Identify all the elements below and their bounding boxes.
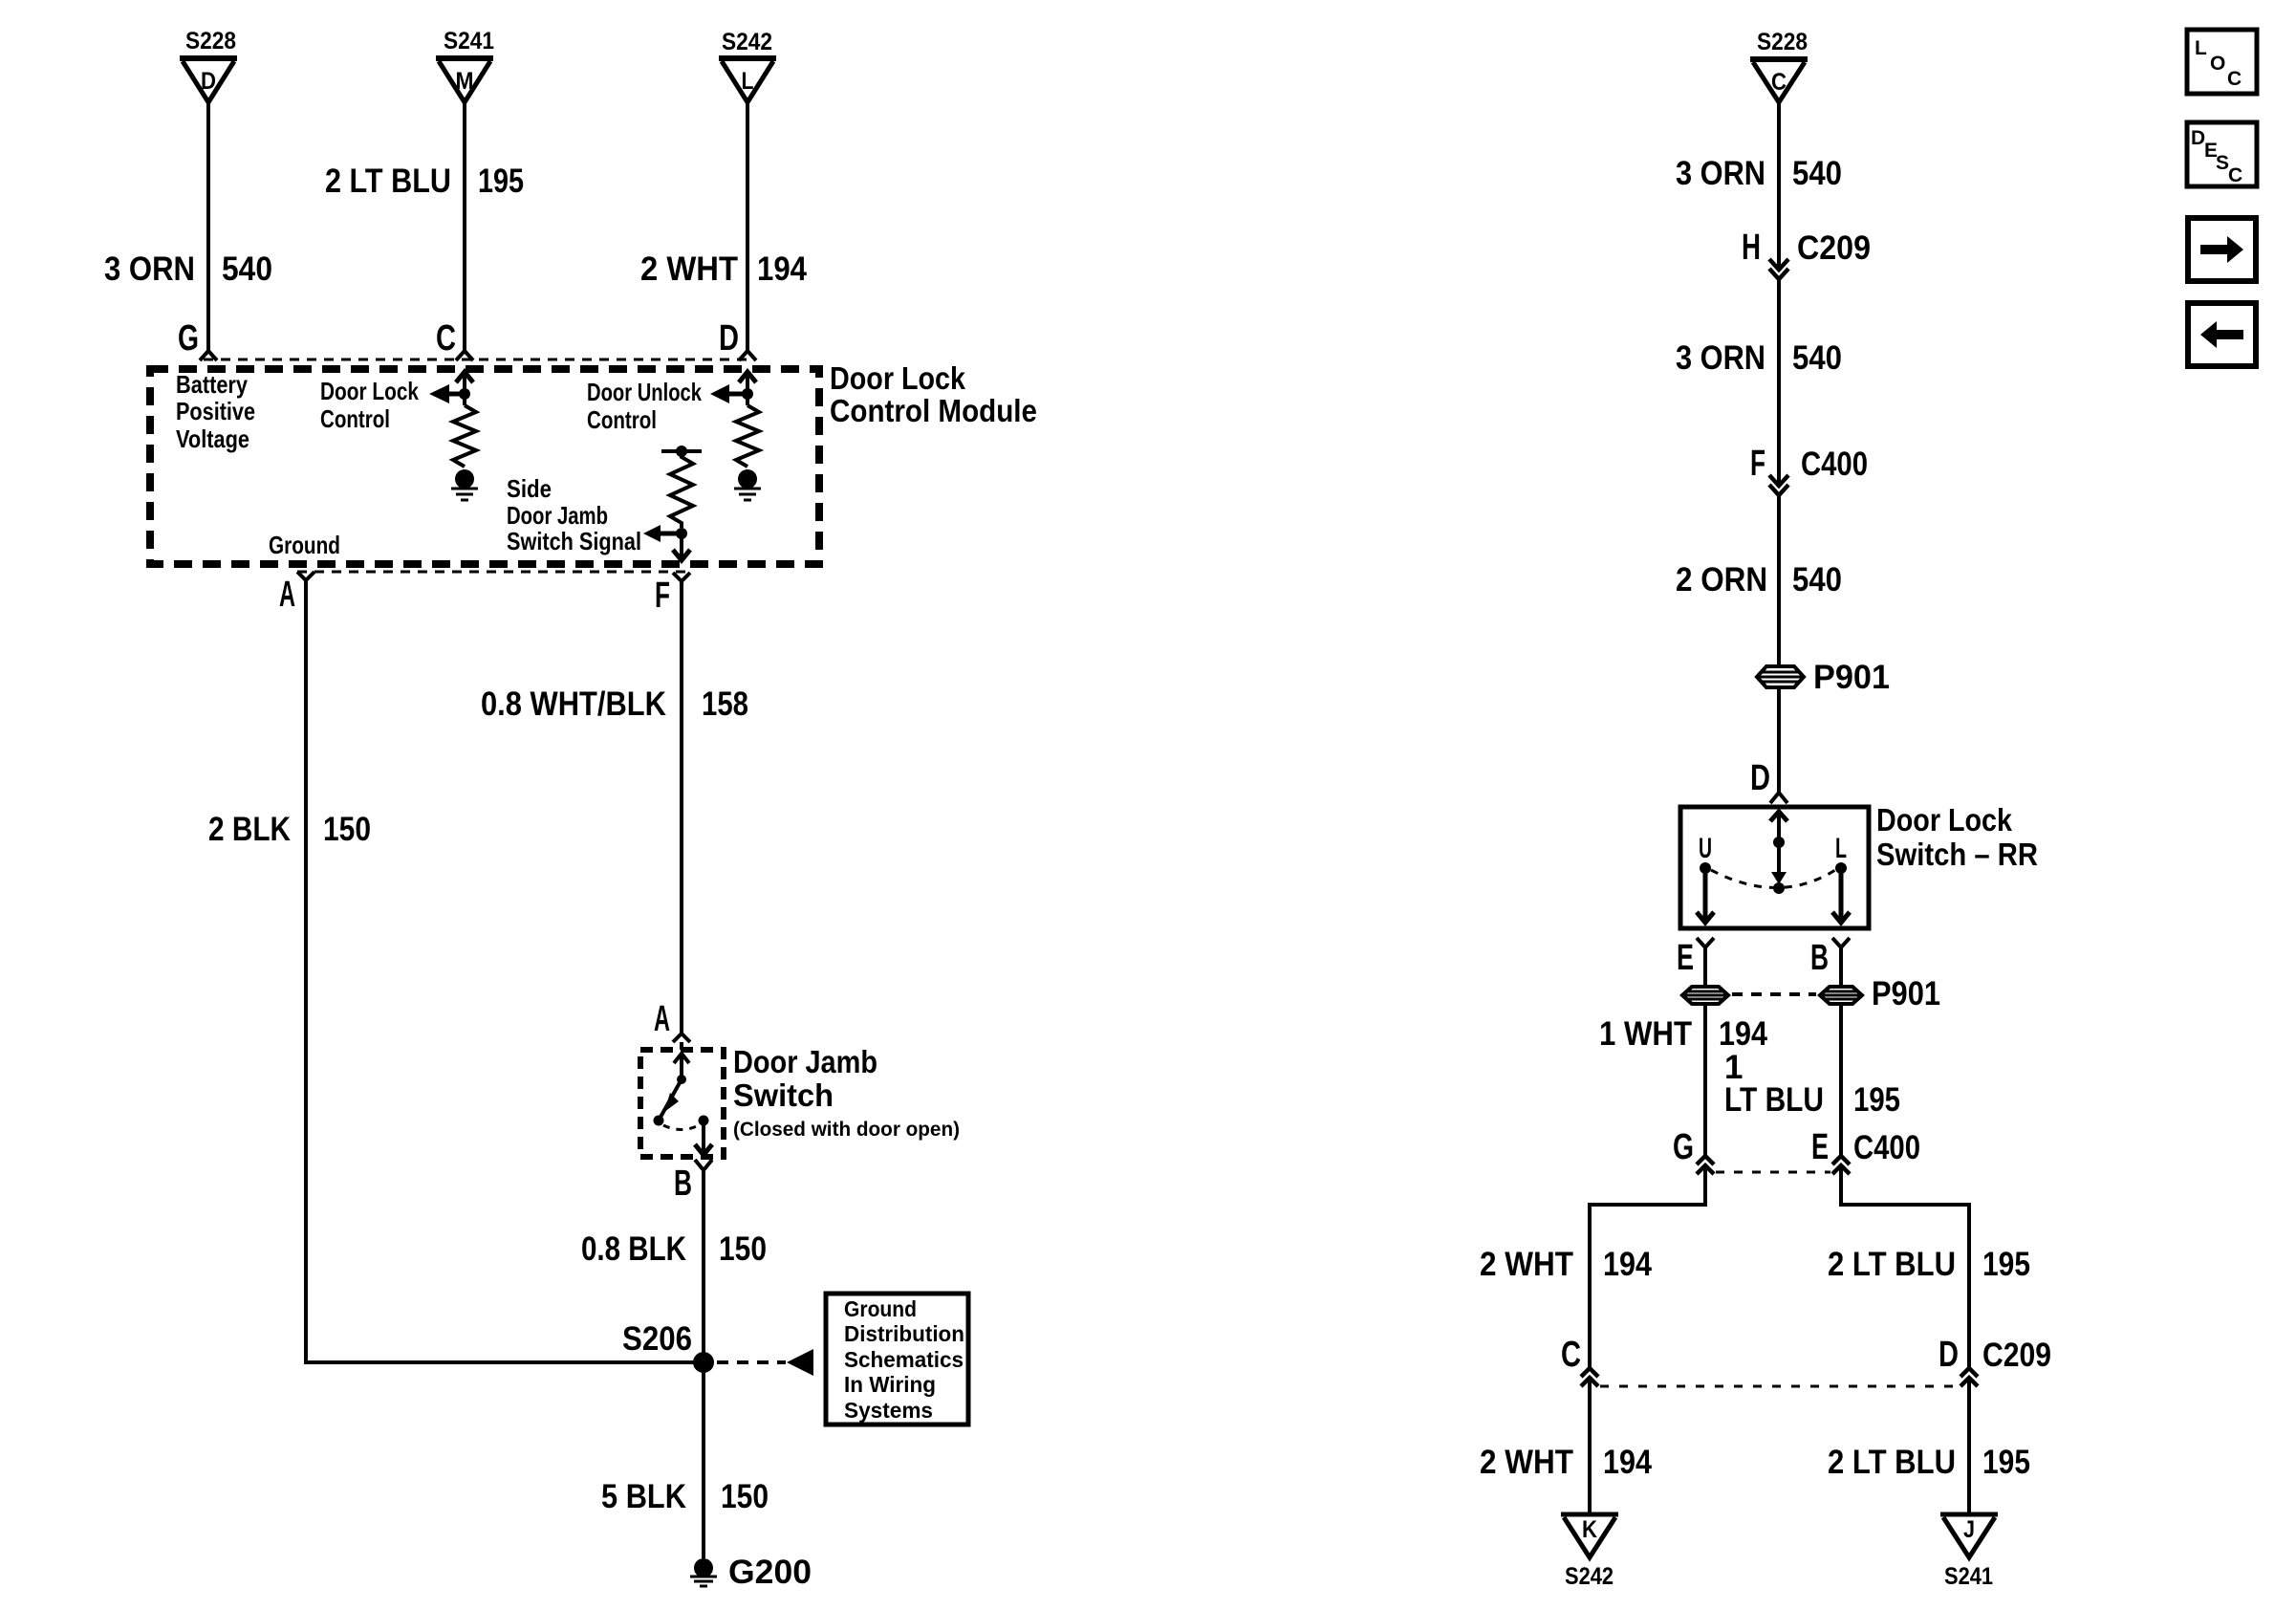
label 3 ORN 540 (lower) — [1676, 339, 1842, 377]
svg-text:C400: C400 — [1853, 1129, 1920, 1166]
Door Lock Switch - RR box — [1680, 807, 1869, 928]
wire P901 to switch pin D — [1777, 687, 1781, 792]
svg-text:Distribution: Distribution — [844, 1321, 964, 1346]
splice S241 (cavity M) — [436, 28, 494, 102]
connector C400 pin F (inline) — [1750, 444, 1868, 495]
svg-text:2 LT BLU: 2 LT BLU — [1828, 1246, 1956, 1283]
connector C400 pin E (inline) — [1811, 1127, 1920, 1174]
svg-text:150: 150 — [323, 811, 371, 848]
connector C209 pin H (inline) — [1742, 228, 1871, 279]
splice S206 — [622, 1320, 714, 1373]
wire pin F to jamb switch — [680, 581, 683, 1033]
svg-text:Switch – RR: Switch – RR — [1876, 837, 2038, 872]
svg-text:S242: S242 — [722, 29, 772, 55]
svg-text:3 ORN: 3 ORN — [104, 250, 195, 288]
svg-text:A: A — [654, 999, 670, 1039]
wire S241-M to pin C — [463, 103, 466, 352]
svg-text:Door Unlock: Door Unlock — [587, 378, 702, 406]
svg-text:195: 195 — [1982, 1444, 2030, 1481]
svg-text:C: C — [2227, 68, 2242, 90]
svg-text:195: 195 — [1853, 1081, 1900, 1119]
node at unlock drive — [742, 388, 753, 400]
label 0.8 BLK 150 — [581, 1230, 767, 1268]
svg-text:Door Lock: Door Lock — [1876, 802, 2013, 838]
label 2 LT BLU 195 — [325, 163, 524, 200]
resistor (door unlock coil) — [736, 405, 759, 467]
jamb switch signal arrow — [643, 525, 682, 542]
pass-through grommet P901 (inline) — [1757, 659, 1890, 696]
svg-text:2 BLK: 2 BLK — [208, 811, 291, 848]
dashed tie C209 — [1600, 1385, 1959, 1388]
svg-text:In Wiring: In Wiring — [844, 1372, 936, 1397]
door unlock control output arrow — [710, 384, 747, 403]
svg-text:C400: C400 — [1801, 446, 1868, 483]
svg-text:150: 150 — [721, 1478, 769, 1515]
wire C400-G to left drop — [1590, 1164, 1705, 1367]
switch pin E fork — [1677, 938, 1714, 978]
svg-text:540: 540 — [222, 250, 272, 288]
svg-text:S206: S206 — [622, 1320, 692, 1358]
pin C terminal fork — [436, 318, 473, 360]
svg-text:L: L — [1835, 833, 1847, 864]
svg-text:S242: S242 — [1565, 1563, 1614, 1590]
label 2 ORN 540 — [1676, 561, 1842, 598]
switch wiper node — [1773, 882, 1785, 894]
svg-text:Door Lock: Door Lock — [830, 360, 966, 396]
svg-text:D: D — [719, 318, 739, 359]
wire S228-D to pin G — [206, 103, 210, 352]
svg-text:D: D — [1939, 1335, 1959, 1375]
svg-text:J: J — [1963, 1516, 1975, 1543]
contact U with arrow down — [1697, 862, 1714, 923]
svg-text:194: 194 — [1603, 1246, 1652, 1283]
dashed tie between P901 grommets — [1732, 992, 1816, 996]
label 2 LT BLU 195 (lower) — [1828, 1444, 2030, 1481]
pin F terminal fork — [655, 573, 690, 616]
svg-text:P901: P901 — [1872, 975, 1940, 1012]
svg-text:S241: S241 — [1944, 1563, 1993, 1590]
svg-text:2 ORN: 2 ORN — [1676, 561, 1767, 598]
svg-text:B: B — [674, 1164, 692, 1204]
jamb switch contact right — [699, 1116, 709, 1126]
wire pin B to P901 — [1839, 947, 1843, 987]
svg-text:5 BLK: 5 BLK — [601, 1478, 686, 1515]
svg-text:S228: S228 — [1757, 29, 1808, 55]
svg-text:195: 195 — [1982, 1246, 2030, 1283]
label 3 ORN 540 (upper) — [1676, 155, 1842, 192]
svg-text:0.8 BLK: 0.8 BLK — [581, 1230, 686, 1268]
wire C400-E to right drop — [1841, 1164, 1969, 1367]
wire C400 to P901 — [1777, 494, 1781, 666]
svg-text:S: S — [2216, 152, 2229, 174]
connector C400 pin G (inline) — [1673, 1127, 1714, 1174]
switch common node — [1773, 837, 1785, 848]
switch dashed throw arc — [1711, 870, 1835, 888]
svg-text:3 ORN: 3 ORN — [1676, 339, 1765, 377]
svg-text:D: D — [2191, 127, 2205, 149]
resistor (door lock coil) — [453, 405, 476, 467]
jamb switch pin A fork — [654, 999, 690, 1050]
svg-text:3 ORN: 3 ORN — [1676, 155, 1765, 192]
internal ground (door unlock coil) — [734, 469, 761, 500]
resistor (jamb pull-up) — [670, 453, 693, 528]
pin A terminal fork — [279, 572, 314, 615]
label Battery Positive Voltage — [176, 370, 255, 453]
label 3 ORN 540 — [104, 250, 272, 288]
door lock control output arrow — [429, 384, 465, 403]
svg-text:Control: Control — [587, 405, 657, 434]
pin D terminal fork — [719, 318, 756, 360]
button previous (left arrow) — [2188, 303, 2256, 366]
svg-text:0.8 WHT/BLK: 0.8 WHT/BLK — [481, 685, 666, 723]
svg-text:Control: Control — [320, 404, 390, 433]
grommet P901 (pin E) — [1682, 987, 1728, 1004]
svg-text:194: 194 — [757, 250, 807, 288]
svg-text:195: 195 — [478, 163, 524, 200]
wire pin B to S206 — [702, 1170, 705, 1362]
svg-text:Voltage: Voltage — [176, 424, 249, 453]
svg-text:Ground: Ground — [269, 531, 340, 559]
node at lock drive — [459, 388, 470, 400]
svg-text:(Closed with door open): (Closed with door open) — [733, 1119, 960, 1141]
svg-text:194: 194 — [1603, 1444, 1652, 1481]
Door Lock Switch - RR name — [1876, 802, 2038, 872]
wire C209 to C400 — [1777, 278, 1781, 485]
svg-text:C: C — [1771, 69, 1787, 96]
Door Lock Control Module box (dashed) — [150, 369, 819, 564]
jamb switch pin B fork — [674, 1160, 712, 1204]
Door Lock Control Module name — [830, 360, 1037, 428]
svg-text:S228: S228 — [185, 28, 236, 54]
button next (right arrow) — [2188, 218, 2256, 281]
svg-text:C: C — [436, 318, 456, 359]
wire C209-C to S242 — [1588, 1378, 1592, 1512]
svg-text:2 WHT: 2 WHT — [1480, 1444, 1573, 1481]
svg-text:540: 540 — [1792, 155, 1842, 192]
internal ground (door lock coil) — [451, 469, 478, 500]
svg-text:Door Lock: Door Lock — [320, 377, 419, 405]
svg-text:C: C — [2228, 164, 2242, 186]
connector C209 pin D (inline) — [1939, 1335, 2051, 1386]
contact L with arrow down — [1832, 862, 1850, 923]
jamb switch dashed throw arc — [663, 1125, 699, 1130]
dashed tie C400 — [1716, 1171, 1830, 1174]
jamb switch contact left — [654, 1116, 664, 1126]
svg-text:Ground: Ground — [844, 1296, 917, 1321]
splice S241 (cavity J) — [1940, 1514, 1998, 1590]
svg-text:B: B — [1810, 938, 1829, 978]
svg-text:158: 158 — [702, 685, 748, 723]
svg-text:C209: C209 — [1982, 1337, 2051, 1374]
svg-text:Systems: Systems — [844, 1398, 933, 1423]
svg-text:LT BLU: LT BLU — [1724, 1081, 1824, 1119]
svg-text:G: G — [1673, 1127, 1694, 1167]
svg-text:C: C — [1561, 1335, 1581, 1375]
svg-text:H: H — [1742, 228, 1761, 268]
wire pin A ground run — [306, 580, 695, 1362]
svg-text:U: U — [1699, 833, 1712, 864]
svg-text:2 WHT: 2 WHT — [640, 250, 738, 288]
label 2 WHT 194 — [640, 250, 807, 288]
jamb switch common node — [677, 1075, 686, 1084]
label Door Unlock Control — [587, 378, 702, 434]
svg-text:540: 540 — [1792, 339, 1842, 377]
Door Jamb Switch name — [733, 1044, 960, 1141]
wire C209-D to S241 — [1967, 1378, 1971, 1512]
wire S228-C to C209 — [1777, 103, 1781, 269]
wire B to C400-E — [1839, 1004, 1843, 1157]
svg-text:E: E — [1677, 938, 1694, 978]
Ground Distribution Schematics reference box — [826, 1294, 968, 1425]
splice S242 (cavity L) — [719, 29, 776, 102]
ground G200 — [690, 1554, 812, 1591]
svg-text:C209: C209 — [1797, 229, 1871, 267]
svg-text:P901: P901 — [1813, 659, 1890, 696]
wire E to C400-G — [1703, 1004, 1707, 1157]
splice S242 (cavity K) — [1561, 1514, 1618, 1590]
svg-text:E: E — [1811, 1127, 1829, 1167]
svg-text:G: G — [178, 318, 199, 359]
module top connector line (thin dashed) — [204, 359, 752, 361]
svg-text:Battery: Battery — [176, 370, 248, 399]
jamb switch input arrow (up) — [674, 1054, 689, 1079]
jamb switch lever (with arrowhead) — [659, 1079, 682, 1120]
label 2 WHT 194 (upper) — [1480, 1246, 1652, 1283]
svg-text:2 WHT: 2 WHT — [1480, 1246, 1573, 1283]
svg-text:Control Module: Control Module — [830, 393, 1037, 428]
svg-text:194: 194 — [1719, 1015, 1767, 1053]
pin G terminal fork — [178, 318, 217, 360]
switch pin D fork — [1750, 758, 1787, 803]
connector C209 pin C (inline) — [1561, 1335, 1598, 1386]
svg-text:O: O — [2210, 53, 2225, 75]
svg-text:Positive: Positive — [176, 397, 255, 425]
svg-text:M: M — [456, 68, 474, 95]
svg-text:G200: G200 — [728, 1554, 812, 1591]
label 2 WHT 194 (lower) — [1480, 1444, 1652, 1481]
button DESC — [2187, 122, 2257, 186]
jamb switch output arrow (down to pin B) — [695, 1120, 712, 1155]
unlock drive input arrow (up) — [739, 372, 756, 405]
label Door Lock Control — [320, 377, 419, 433]
svg-text:2 LT BLU: 2 LT BLU — [325, 163, 451, 200]
splice S228 (left, cavity D) — [180, 28, 237, 102]
svg-text:Switch Signal: Switch Signal — [507, 527, 641, 555]
svg-text:Door Jamb: Door Jamb — [507, 501, 608, 530]
label 1 WHT 194 — [1599, 1015, 1767, 1053]
svg-text:540: 540 — [1792, 561, 1842, 598]
svg-text:150: 150 — [719, 1230, 767, 1268]
svg-text:A: A — [279, 575, 295, 615]
label 2 LT BLU 195 (upper) — [1828, 1246, 2030, 1283]
svg-text:D: D — [1750, 758, 1770, 798]
wire S206 to G200 — [702, 1362, 705, 1558]
switch pin B fork — [1810, 938, 1850, 978]
svg-text:Schematics: Schematics — [844, 1347, 964, 1372]
svg-text:F: F — [655, 576, 670, 616]
svg-text:D: D — [201, 68, 216, 95]
button LOC — [2187, 30, 2257, 94]
label 0.8 WHT/BLK 158 — [481, 685, 748, 723]
svg-text:Door Jamb: Door Jamb — [733, 1044, 877, 1079]
svg-text:1 WHT: 1 WHT — [1599, 1015, 1692, 1053]
jamb pull-up rail — [661, 446, 702, 457]
svg-text:L: L — [742, 68, 754, 95]
grommet P901 (pin B) — [1820, 987, 1862, 1004]
svg-text:K: K — [1582, 1516, 1597, 1543]
svg-text:F: F — [1750, 444, 1765, 484]
wire pin E to P901 — [1703, 947, 1707, 987]
label 5 BLK 150 — [601, 1478, 769, 1515]
module bottom connector line (thin dashed) — [297, 571, 690, 574]
splice S228 (right, cavity C) — [1750, 29, 1808, 102]
node jamb sense — [676, 528, 687, 539]
jamb sense output arrow (down to pin F) — [673, 533, 690, 560]
svg-text:Switch: Switch — [733, 1077, 834, 1113]
wire S242-L to pin D — [746, 103, 749, 352]
lock drive input arrow (up) — [456, 372, 473, 405]
svg-text:2 LT BLU: 2 LT BLU — [1828, 1444, 1956, 1481]
label 1 LT BLU 195 — [1724, 1049, 1900, 1119]
label 2 BLK 150 — [208, 811, 371, 848]
dashed reference to ground distribution — [717, 1349, 813, 1376]
svg-text:S241: S241 — [444, 28, 494, 54]
Door Jamb Switch box (dashed) — [640, 1050, 724, 1157]
svg-text:L: L — [2195, 37, 2207, 59]
svg-text:Side: Side — [507, 474, 552, 503]
label Side Door Jamb Switch Signal — [507, 474, 641, 555]
switch common feed arrow (double ended) — [1770, 812, 1787, 884]
